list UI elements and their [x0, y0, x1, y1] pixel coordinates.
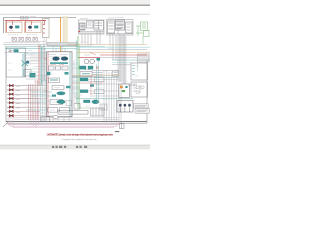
bus gray 1: [77, 49, 147, 51]
valve cell row 1c: [62, 66, 68, 70]
pump P1: [9, 26, 12, 29]
pink rail 3: [13, 118, 114, 128]
orange element: [120, 86, 123, 89]
extra teal patch 2: [66, 86, 71, 88]
relay K7: [7, 110, 13, 113]
valve V2: [34, 26, 38, 28]
scattered tiny label smudges: [9, 17, 124, 113]
red riser right-mid: [90, 76, 92, 95]
red x mark: [96, 66, 99, 69]
lower bundle to bottom: [104, 70, 121, 121]
red dot L: [79, 31, 81, 32]
cluster L box2: [87, 21, 94, 28]
red x small: [45, 58, 48, 61]
cluster R box1: [108, 21, 115, 33]
mid horizontal joins left: [14, 79, 46, 107]
label row under pumps: [8, 33, 37, 35]
cluster L divider marks: [88, 21, 99, 31]
pink rail 1: [8, 118, 120, 125]
left tall box: [6, 48, 26, 77]
valve cell row 5b: [60, 108, 70, 113]
texture smudges dense areas: [8, 38, 139, 110]
teal oval low: [57, 100, 64, 103]
red riser center: [47, 52, 49, 117]
multicolor valve block: [119, 84, 130, 98]
extra teal patch 3: [90, 85, 94, 87]
cream highlight stripe: [63, 17, 67, 43]
red top wire: [78, 56, 100, 58]
valve cell row 1b: [56, 66, 61, 70]
sub box under left box: [24, 70, 31, 77]
bottom collector wire 1: [8, 117, 119, 119]
teal block B: [88, 66, 93, 69]
cluster L dense box: [80, 23, 86, 30]
cluster R extra marks: [117, 24, 131, 30]
fan pump group 2 box: [25, 22, 42, 33]
red drop left: [6, 21, 8, 32]
junction box above valve: [113, 71, 119, 77]
terminal red dot 2: [43, 24, 44, 25]
main block outline: [47, 52, 73, 117]
frame bottom second line: [6, 122, 147, 124]
accumulator box: [117, 101, 133, 113]
relay K8: [7, 114, 13, 117]
teal box right of pumps: [97, 58, 101, 61]
teal oval mid: [57, 92, 65, 95]
svg-text:Copyright notice hydraulic sch: Copyright notice hydraulic schematic sys: [62, 138, 97, 141]
teal control box A: [80, 78, 88, 81]
green drop from cluster: [142, 37, 144, 45]
red riser left-mid: [38, 45, 40, 86]
small box left of pump: [66, 101, 72, 106]
pump circle A: [84, 59, 89, 63]
main gray harness bundle: [118, 34, 126, 84]
small ellipse pair bottom-left-center: [53, 115, 58, 118]
toolbar icons group2: [76, 146, 87, 148]
ladder rungs teal: [26, 54, 80, 102]
green line main: [77, 36, 79, 108]
marks in right box: [132, 66, 135, 75]
terminal strip TB1: [43, 19, 50, 38]
note text lines: [135, 105, 148, 111]
relay K4: [7, 97, 13, 100]
cluster R bottom wires: [107, 33, 133, 35]
frame left border upper: [2, 18, 4, 34]
solenoid row S2: [19, 37, 23, 41]
green element: [122, 90, 126, 92]
white box beside B: [95, 90, 105, 94]
teal riser left-mid: [40, 47, 42, 86]
bus teal 1: [77, 46, 150, 48]
left collector wire gray: [3, 44, 46, 46]
teal cross X: [22, 60, 29, 66]
frame right border: [146, 60, 148, 123]
teal drop from striped block: [137, 62, 139, 71]
teal valve in left box: [14, 49, 19, 52]
bus gray 2: [100, 56, 137, 58]
lower white box: [80, 72, 92, 77]
cluster R inner marks: [109, 22, 124, 29]
left teal bus 2: [5, 48, 77, 50]
bottom collector wire 2: [14, 119, 119, 121]
green component cluster: [136, 22, 149, 37]
top mini boxes: [21, 17, 29, 20]
top red feed wire: [5, 20, 47, 22]
lower right box symbols: [136, 86, 144, 94]
white box beside A: [95, 78, 105, 82]
cluster R outer: [107, 20, 134, 36]
toolbar icons group1: [52, 146, 66, 148]
center dark risers: [53, 46, 74, 121]
dark mark in left box: [9, 50, 12, 52]
striped box right: [91, 108, 105, 116]
red drop 5: [44, 21, 46, 24]
terminal red dot 1: [43, 20, 44, 21]
impeller A: [53, 57, 60, 61]
teal wire mid: [72, 76, 119, 78]
valve label smudge: [128, 84, 137, 86]
accumulator balls: [119, 104, 131, 107]
tan wire low: [72, 74, 119, 76]
mid teal joins: [26, 81, 52, 111]
bus tan: [67, 43, 147, 45]
harness fill: [119, 36, 125, 82]
right mid rung wires: [72, 80, 119, 97]
orange supply line: [60, 18, 62, 53]
solenoid row S4: [33, 37, 37, 41]
red drop 2: [12, 21, 14, 25]
pink risers left: [31, 100, 39, 128]
red drop 3: [25, 21, 27, 32]
accumulator stems: [120, 108, 129, 113]
valve cell row 3: [52, 86, 64, 90]
valve cell row 5a: [48, 108, 58, 113]
right mid wires to bundle: [72, 71, 119, 77]
gray header band: [47, 42, 78, 46]
dark riser left-mid: [43, 45, 45, 80]
relay K3: [7, 93, 13, 96]
label box note1: [134, 104, 149, 108]
extra teal patch 4: [52, 95, 56, 97]
top chrome band: [0, 0, 150, 5]
red wire mid: [72, 82, 103, 84]
teal block A: [79, 66, 86, 69]
bus orange: [77, 51, 150, 53]
valve cell row 2b teal dash: [50, 79, 58, 81]
teal control box B: [80, 90, 88, 93]
pink rail 2: [10, 118, 117, 126]
small box between: [74, 104, 80, 110]
extra teal patch 1: [65, 72, 69, 75]
terminal red dot 4: [43, 33, 44, 34]
toolbar band: [0, 145, 150, 150]
pump P2: [28, 26, 31, 29]
upper-left horizontal joins: [4, 41, 46, 75]
red drop 4: [31, 21, 33, 25]
relay bus risers: [29, 80, 38, 120]
frame top border: [3, 17, 76, 19]
relay K5: [7, 101, 13, 104]
teal control box C: [84, 100, 91, 103]
page mark dash: [115, 130, 120, 133]
cluster L box3: [94, 21, 104, 31]
bus teal 2: [112, 59, 150, 61]
relay K2: [7, 88, 13, 91]
teal block lower-left: [30, 73, 36, 78]
teal cell: [47, 72, 51, 75]
green line second: [78, 44, 90, 108]
tank long box: [58, 110, 88, 114]
frame bottom border: [6, 121, 147, 123]
impeller B: [61, 57, 68, 61]
teal riser 1: [22, 54, 24, 78]
teal riser outside block: [75, 40, 77, 103]
teal pair risers mid-right: [97, 60, 99, 100]
valve cell row 2a: [49, 78, 60, 82]
teal band: [50, 62, 68, 64]
teal riser 2: [24, 54, 26, 78]
svg-text:CAUTION NOTE: Schematic is sho: CAUTION NOTE: Schematic is shown with en…: [47, 133, 113, 137]
striped connector block: [138, 54, 150, 62]
pump circle B: [90, 59, 95, 63]
teal long wire low: [76, 98, 133, 100]
left teal bus 1: [5, 46, 105, 48]
fan pump group 1 box: [6, 22, 23, 33]
left box divider: [24, 52, 26, 77]
corner slash: [3, 122, 8, 127]
teal riser center right: [69, 52, 71, 117]
left mid connectors row: [41, 117, 50, 122]
center vertical bundle: [41, 44, 46, 116]
bus gray 3: [112, 64, 131, 66]
frame left border lower: [5, 46, 7, 122]
ladder rungs center-left: [26, 57, 58, 116]
valve cell row 1a: [49, 66, 55, 70]
solenoid row S1: [12, 37, 16, 41]
secondary divider line: [0, 13, 150, 16]
right big box upper: [131, 63, 148, 80]
bundle from cluster L: [82, 30, 100, 46]
right big box lower: [131, 82, 148, 97]
top divider line: [0, 5, 150, 6]
teal pump low A: [58, 100, 65, 104]
box with lines bottom right: [100, 104, 107, 110]
relay K1: [7, 84, 13, 87]
cluster L bottom wires: [79, 32, 104, 34]
bus red: [100, 54, 147, 56]
red label smudges: [44, 53, 96, 92]
cluster R box3: [126, 22, 133, 33]
valve V1: [15, 26, 19, 28]
toolbar top edge: [0, 144, 150, 147]
bus teal 3: [112, 61, 131, 63]
valve cell row 4: [50, 100, 63, 105]
terminal red dot 3: [43, 28, 44, 29]
relay K6: [7, 106, 13, 109]
teal dash in box: [82, 73, 90, 75]
below-frame symbol: [120, 122, 125, 129]
bundle from cluster R: [110, 30, 118, 60]
label box note2: [135, 109, 150, 114]
cluster R box2: [116, 20, 125, 30]
teal element: [125, 86, 127, 88]
marks in lower right box: [133, 85, 140, 93]
teal pump low B: [92, 100, 99, 104]
cluster L inner marks: [80, 23, 102, 29]
strip bottom leads: [44, 38, 46, 45]
solenoid row S3: [26, 37, 30, 41]
cluster L outer: [79, 20, 105, 34]
relay feed wires: [14, 86, 40, 116]
